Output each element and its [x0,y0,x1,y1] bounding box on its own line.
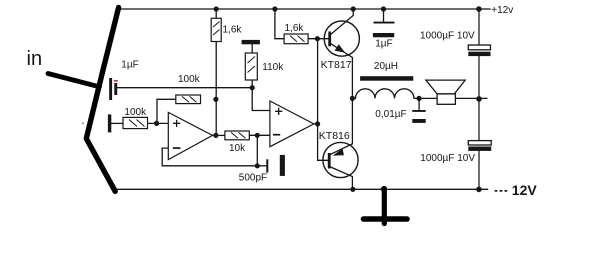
wire right vertical rail [478,9,480,189]
wire Q1 collector to top rail [331,9,353,34]
hand-drawn input bracket [86,8,118,192]
svg-text:10k: 10k [229,143,246,154]
wire feedback left leg of R3 [157,99,176,123]
node dot D emitters L1 left [350,96,355,101]
wire 500pF left lead [257,165,266,167]
svg-text:KT816: KT816 [319,130,350,142]
hand-drawn ground vertical stroke [382,189,387,224]
red speck lower left [82,123,84,125]
wire node E to speaker [419,97,437,99]
node dot R2 top [214,6,219,11]
inductor L1 core bar [360,76,413,81]
wire top +12V rail [119,8,491,10]
node dot B 10k U2 minus [255,133,260,138]
red speck near C1 [114,80,118,82]
wire riser of R2 1,6k from top rail to op-amp U1 output [215,9,217,135]
capacitor C3 500pF plates [266,155,285,176]
node dot feedback R3 right [213,97,218,102]
node dot Q1 base [315,36,320,41]
hand-drawn in pointer line [48,74,100,87]
capacitor C7 1000uF 10V bottom electrolytic [468,141,491,151]
svg-text:110k: 110k [262,62,284,73]
wire R6 1,6k to transistor Q1 base [308,38,328,40]
svg-text:KT817: KT817 [321,59,352,71]
svg-text:1000µF 10V: 1000µF 10V [420,153,475,164]
capacitor C1 1uF input, plates [109,78,117,100]
node dot C4 top [381,6,386,11]
node dot +12v corner [476,6,482,12]
svg-text:1,6k: 1,6k [285,23,305,34]
svg-text:500pF: 500pF [239,172,267,183]
wire op-amp U2 output stub [314,123,318,125]
wire 0,01uF top lead [418,98,420,110]
wire op-amp U1 output to R4 10k [213,134,225,136]
resistor R6 1,6k horizontal [284,34,308,44]
node dot Q1 collector top [351,6,356,11]
svg-text:1000µF 10V: 1000µF 10V [420,31,475,42]
wire input terminal to R1 100k [111,122,123,124]
wire Q2 emitter up to node D [331,98,353,154]
node dot A 110k input line [250,85,255,90]
wire R4 10k to op-amp U2 minus input [249,134,270,136]
svg-text:0,01µF: 0,01µF [375,109,406,120]
node dot ground on rail [381,186,386,191]
node dot U1 plus input [154,121,159,126]
svg-text:100k: 100k [178,74,201,85]
svg-text:in: in [27,48,43,70]
capacitor C4 1uF plates [373,22,395,38]
node dot Q2 collector bottom [350,187,355,192]
wire C4 1uF top lead from rail [383,9,385,22]
node dot E L1 right [417,96,422,101]
svg-text:1µF: 1µF [375,39,392,50]
svg-text:1,6k: 1,6k [223,24,243,35]
svg-text:20µH: 20µH [374,61,398,72]
resistor R4 10k [225,131,249,140]
resistor R1 100k [123,117,148,128]
wire op-amp U1 minus feedback step [162,148,257,166]
capacitor C6 1000uF 10V top electrolytic [468,45,490,56]
svg-text:1µF: 1µF [121,59,138,70]
node dot speaker right rail [476,96,482,102]
capacitor C5 0,01uF plates [412,110,425,123]
wire node A to op-amp U2 plus input [252,88,270,111]
node dot 500pF [255,163,260,168]
speaker LS1 [426,80,465,104]
wire R5 110k top bar to box [251,44,253,53]
svg-text:100k: 100k [124,107,147,118]
wire Q1 emitter down to node D [331,44,353,99]
wire speaker to right rail [455,97,487,99]
inductor L1 20uH winding [353,89,419,99]
wire Q2 collector to bottom rail [331,167,353,189]
node dot U2 output [315,121,320,126]
svg-text:12V: 12V [512,182,538,198]
op-amp U2 [270,101,314,147]
node dot R6 riser top [272,6,277,11]
resistor R5 110k vertical [245,53,257,80]
resistor R2 1,6k vertical [211,18,221,41]
wire R1 100k to op-amp U1 plus input [148,122,169,124]
transistor Q2 KT816 [323,142,358,177]
terminal bar on top of R5 110k [242,40,260,44]
wire riser of R6 1,6k from top rail [275,9,284,39]
wire node B vertical to 500pF node [256,135,258,166]
wire R5 110k box to node A [251,80,253,88]
input terminal bar of R1 [108,114,111,132]
wire node C vertical from Q1 base node to Q2 base [318,39,328,161]
label -12V dashes [495,190,508,192]
transistor Q1 KT817 [324,21,359,56]
resistor R3 100k feedback [176,95,201,104]
node dot U1 output [213,133,218,138]
svg-text:+12v: +12v [491,5,513,16]
op-amp U1 [168,112,212,159]
wire bottom -12V rail [113,188,487,190]
node dot -12V corner [476,187,482,193]
hand-drawn ground horizontal stroke [364,216,408,222]
wire input line from C1 to node A [117,87,252,89]
